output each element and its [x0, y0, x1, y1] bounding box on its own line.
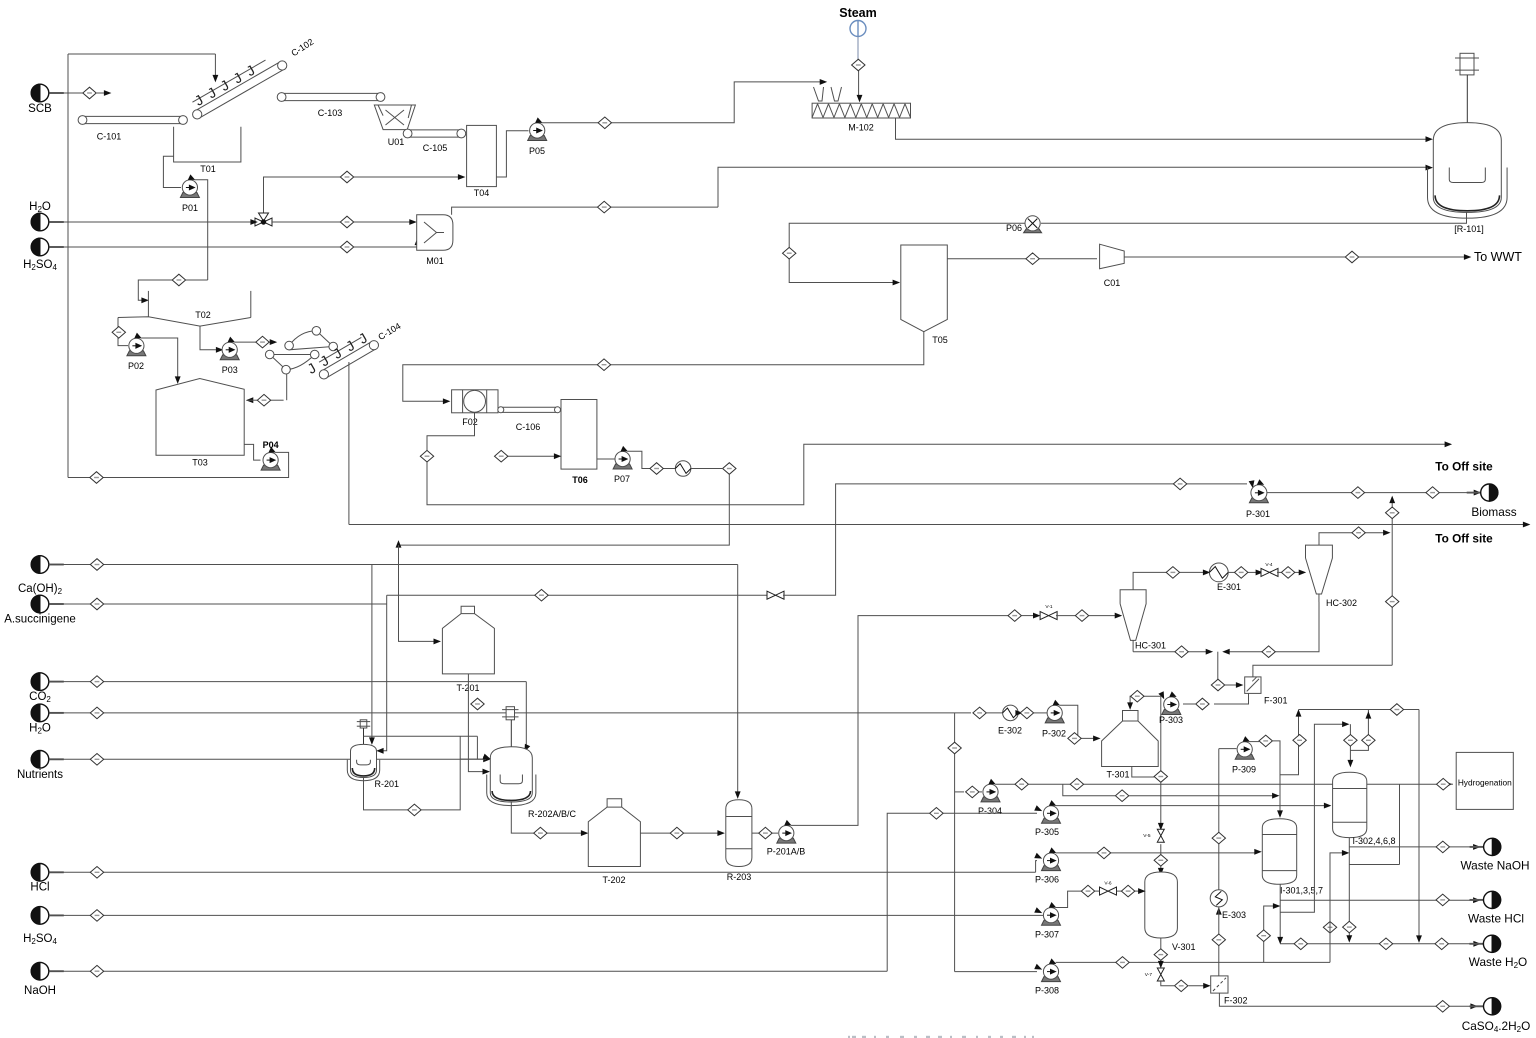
wire H2O to E-302	[986, 712, 1002, 714]
stream diamond on HC-302 bottoms	[1262, 646, 1275, 658]
svg-text:C-103: C-103	[318, 108, 343, 118]
stream diamond on HCl line	[90, 867, 103, 879]
stream diamond on R-202 outlet	[534, 827, 547, 839]
svg-text:P02: P02	[128, 361, 144, 371]
wire waste NaOH line	[1349, 845, 1479, 849]
stream diamond on waste H2O 3	[1435, 938, 1448, 950]
wire R-201 bracket down	[476, 736, 478, 759]
svg-text:Waste HCl: Waste HCl	[1468, 912, 1524, 926]
stream diamond on T-301 feed	[1068, 733, 1081, 745]
stream diamond on top header	[1390, 704, 1403, 716]
wire T-301 riser	[1160, 696, 1162, 782]
output Waste NaOH	[1460, 838, 1529, 872]
wire to valve V-1	[1022, 613, 1040, 617]
conveyor C-101	[78, 116, 187, 142]
wire P03 discharge	[234, 340, 275, 344]
tank T03	[156, 379, 244, 468]
wire C-104 line to off site	[349, 522, 1529, 526]
stream diamond on Nutrients line	[90, 754, 103, 766]
pump P-301	[1246, 480, 1270, 519]
stream diamond on T-301 recycle	[1131, 690, 1144, 702]
motor on R-101	[1455, 53, 1479, 75]
pump P-303	[1159, 692, 1183, 725]
wire V-5 to V-301	[1159, 844, 1163, 874]
wire V-7 to F-302	[1161, 981, 1210, 988]
heat exchanger E-303	[1210, 890, 1246, 920]
stream diamond on F-301 feed	[1211, 679, 1224, 691]
stream diamond on waste H2O 2	[1379, 938, 1392, 950]
hydrocyclone HC-301	[1120, 590, 1166, 652]
input NaOH	[24, 962, 64, 997]
wire T05 bottoms to F02	[403, 332, 924, 404]
stream diamond on H2O-M01 line	[340, 216, 353, 228]
svg-text:T04: T04	[474, 188, 490, 198]
svg-text:E-301: E-301	[1217, 582, 1241, 592]
wire T06 feed	[508, 454, 560, 458]
stream diamond above E-303	[1212, 832, 1225, 844]
wire P-309 feed corner	[1219, 748, 1237, 750]
wire to P-304	[979, 791, 982, 793]
stream diamond on P-308 riser	[1323, 922, 1336, 934]
valve on purge line	[767, 591, 784, 599]
wire nutrients junction to R-202	[460, 755, 489, 760]
wire V-5 riser	[1159, 782, 1163, 829]
wire branch from P-308 line up	[1264, 904, 1279, 963]
svg-text:U01: U01	[388, 137, 405, 147]
pump P-309	[1232, 737, 1256, 774]
input A.succinigene	[4, 595, 76, 625]
wire T03 outlet to P04	[244, 444, 260, 460]
input H2SO4 lower	[23, 907, 64, 946]
reactor R-101	[1428, 75, 1508, 234]
svg-text:P-308: P-308	[1035, 986, 1059, 996]
input Nutrients	[17, 751, 64, 782]
svg-text:NaOH: NaOH	[24, 985, 56, 997]
wire NaOH line	[49, 970, 887, 972]
tank T05	[901, 245, 948, 345]
svg-text:T02: T02	[195, 310, 211, 320]
svg-text:P07: P07	[614, 474, 630, 484]
wire P-302 discharge to T-301	[1059, 705, 1099, 740]
label Steam	[839, 6, 877, 20]
wire Ca(OH)2 branch to R-201	[370, 565, 374, 744]
wire P-307 discharge to V-6	[1056, 891, 1081, 907]
svg-text:E-302: E-302	[998, 726, 1022, 736]
stream diamond on P05 line	[598, 117, 611, 129]
wire HC-302 bottoms	[1224, 602, 1319, 654]
stream diamond on I-302 bottoms	[1343, 921, 1356, 933]
stream diamond on V-301 bottoms	[1154, 949, 1167, 961]
stream diamond on P-301 feed	[1173, 478, 1186, 490]
belt conveyor lower	[265, 350, 319, 374]
wire riser to T-301 top	[1128, 692, 1164, 709]
stream diamond on biomass line 1	[1351, 487, 1364, 499]
hydrocyclone HC-302	[1306, 545, 1358, 608]
stream diamond on P02 feed	[112, 327, 125, 339]
wire E-302 to P-302	[1016, 711, 1047, 715]
stream diamond on T04 feed	[340, 171, 353, 183]
stream diamond on T-202 outlet	[670, 827, 683, 839]
stream diamond after E-302	[1020, 707, 1033, 719]
conveyor C-104 inclined	[304, 329, 378, 379]
stream diamond after E-301	[1235, 567, 1248, 579]
wire T-301 bottoms	[1132, 767, 1154, 778]
wire M01 discharge up	[452, 207, 718, 215]
stream diamond on F02 bottoms	[420, 450, 433, 462]
svg-text:P04: P04	[263, 440, 279, 450]
wire R-202 outlet	[511, 802, 587, 835]
input SCB	[28, 84, 64, 115]
wire HCl line	[49, 871, 1036, 873]
stream diamond on P07 line	[650, 463, 663, 475]
svg-text:Waste H2O: Waste H2O	[1469, 955, 1527, 970]
svg-text:V-4: V-4	[1265, 562, 1273, 568]
stream diamond on T05 bottoms	[597, 359, 610, 371]
svg-text:T03: T03	[192, 458, 208, 468]
svg-text:P06: P06	[1006, 223, 1022, 233]
stream diamond on F-302 feed	[1175, 980, 1188, 992]
reactor R-202	[487, 720, 577, 819]
stream diamond on HC-302 overhead	[1352, 527, 1365, 539]
wire A.succinigene line	[49, 603, 387, 605]
output Waste HCl	[1468, 891, 1524, 925]
wire hydrogenation branch	[1349, 784, 1399, 864]
wire valve riser to T04 line	[264, 175, 465, 196]
spout on M-102 inlet 1	[814, 87, 824, 101]
wire Ca(OH)2 line	[49, 564, 738, 566]
wire A.succ down to R-201	[378, 604, 387, 753]
wire to P-303	[1183, 703, 1196, 705]
stream diamond on R-201 outlet	[408, 804, 421, 816]
pump P05	[528, 118, 547, 156]
wire C-104 discharge down	[348, 362, 350, 525]
stream diamond on CO2 line	[90, 676, 103, 688]
wire F-302 bottoms	[1219, 993, 1476, 1008]
wire F-301 top outlet	[1253, 665, 1392, 677]
svg-text:P-303: P-303	[1159, 715, 1183, 725]
wire R-203 outlet to pump	[752, 832, 778, 834]
wire P02 discharge to T03	[141, 338, 180, 383]
stream diamond on P-305 feed	[930, 808, 943, 820]
wire HC-301 overhead	[1133, 570, 1209, 590]
reactor R-201	[347, 728, 399, 789]
svg-text:T01: T01	[200, 164, 216, 174]
valve three-way on H2O line	[251, 196, 272, 226]
svg-text:Waste NaOH: Waste NaOH	[1460, 859, 1529, 873]
svg-text:HC-302: HC-302	[1326, 598, 1357, 608]
input CO2	[29, 673, 64, 704]
svg-text:F-302: F-302	[1224, 996, 1248, 1006]
wire waste HCl line	[1280, 898, 1479, 902]
wire steam to M-102	[857, 37, 861, 102]
belt conveyor upper	[285, 327, 338, 351]
input H2SO4	[23, 238, 64, 272]
wire HX to diamond	[691, 468, 722, 470]
svg-text:V-5: V-5	[1143, 833, 1151, 839]
wire riser to I-302 feed	[1348, 724, 1352, 766]
stream diamond on steam line	[852, 59, 865, 71]
svg-text:Hydrogenation: Hydrogenation	[1458, 778, 1512, 788]
label To WWT	[1474, 250, 1522, 264]
wire C01 to WWT	[1124, 255, 1470, 259]
heat exchanger E-302	[998, 705, 1022, 735]
stream diamond on waste H2O 1	[1294, 938, 1307, 950]
stream diamond after HX	[723, 463, 736, 475]
svg-text:V-7: V-7	[1145, 972, 1153, 978]
stream diamond on A.succinigene line	[90, 598, 103, 610]
wire header down to waste	[1417, 710, 1421, 942]
wire H2O line	[49, 221, 255, 223]
wire P-309 line to I-301	[1272, 741, 1282, 817]
stream diamond on riser upper	[1386, 507, 1399, 519]
crusher U01	[374, 105, 415, 147]
wire valve to HC-302	[1277, 570, 1305, 574]
stream diamond on riser	[1386, 596, 1399, 608]
pump P-307	[1035, 903, 1061, 940]
wire H2SO4 line to M01	[49, 239, 420, 247]
conveyor C-103	[277, 93, 385, 118]
label To Off site upper	[1435, 460, 1493, 474]
pump P02	[127, 334, 146, 371]
svg-text:T-202: T-202	[602, 875, 625, 885]
stream diamond on HC-301 overhead	[1166, 567, 1179, 579]
stream diamond on P01 line	[172, 274, 185, 286]
column I-301	[1262, 819, 1323, 896]
stream diamond on upper jog	[1362, 735, 1375, 747]
wire M01 line to R-101	[718, 165, 1432, 207]
svg-text:F02: F02	[462, 417, 478, 427]
wire branch to P-308	[955, 965, 1041, 972]
stream diamond on waste HCl	[1436, 894, 1449, 906]
wire V-301 bottoms	[1159, 938, 1163, 967]
wire P-306 discharge to I-301	[1056, 850, 1261, 854]
wire Ca(OH)2 to R-203 top	[736, 565, 740, 798]
stream diamond on F-301 bottoms	[1196, 698, 1209, 710]
wire junction down to F-301	[1218, 652, 1242, 688]
wire branch to P-304	[955, 791, 964, 793]
wire biomass line	[1267, 490, 1480, 494]
stream diamond on P-304 line 1	[1015, 778, 1028, 790]
stream diamond on biomass line 2	[1426, 487, 1439, 499]
wire T01 outlet to P01	[163, 156, 181, 187]
stream diamond on hydrogenation feed	[1437, 778, 1450, 790]
wire valve to M01	[272, 220, 415, 224]
svg-text:C-106: C-106	[516, 422, 541, 432]
input H2O	[29, 201, 64, 231]
wire P-309 branch zigzag	[1280, 711, 1301, 775]
stream diamond on branch	[1257, 930, 1270, 942]
mixer M01	[417, 215, 453, 266]
output Biomass	[1467, 484, 1517, 519]
wire P05 discharge to M-102	[542, 80, 826, 123]
wire HCl jog to P-306	[1035, 854, 1041, 873]
svg-text:V-6: V-6	[1104, 881, 1112, 887]
stream diamond on P06 line	[783, 247, 796, 259]
svg-text:P-302: P-302	[1042, 729, 1066, 739]
svg-text:To WWT: To WWT	[1474, 250, 1522, 264]
stream diamond on zigzag	[1293, 735, 1306, 747]
tank T02 trough	[118, 291, 251, 326]
tank T01 open top	[174, 127, 241, 174]
wire E-301 to valve	[1228, 570, 1262, 574]
wire H2O process line	[49, 712, 971, 714]
wire recycle top horizontal	[68, 53, 215, 55]
wire SCB diamond arrow	[96, 91, 110, 95]
wire top header	[1299, 709, 1420, 711]
stream diamond on M01 line	[598, 201, 611, 213]
svg-text:SCB: SCB	[28, 103, 52, 115]
wire P-304 line to hydrogenation	[1028, 782, 1453, 786]
svg-text:HCl: HCl	[30, 882, 49, 894]
wire P-305 discharge to I-302	[1056, 803, 1330, 807]
wire T-202 to R-203	[640, 831, 723, 835]
wire V-6 to V-301	[1095, 889, 1145, 893]
motor on R-201	[357, 720, 370, 728]
stream diamond on H2O process line	[90, 707, 103, 719]
svg-text:M01: M01	[426, 256, 444, 266]
valve V-6	[1100, 881, 1117, 896]
input H2O lower	[29, 704, 64, 735]
pump P-305	[1035, 801, 1061, 837]
wire CO2 line	[49, 681, 527, 683]
column R-203	[726, 800, 752, 882]
compressor C01	[1100, 244, 1125, 288]
svg-text:To Off site: To Off site	[1435, 460, 1493, 474]
stream diamond on CaSO4 line	[1436, 1001, 1449, 1013]
wire P-309 discharge	[1249, 741, 1259, 743]
stream diamond on recycle to I-301	[1115, 790, 1128, 802]
wire CO2 down to R-202	[525, 682, 529, 751]
output Waste H2O	[1469, 935, 1527, 970]
stream diamond on P-304 feed	[966, 786, 979, 798]
svg-text:P-305: P-305	[1035, 827, 1059, 837]
wire P04 discharge recycle	[68, 452, 289, 477]
stream diamond before HC-301	[1075, 610, 1088, 622]
stream diamond on T-301 riser	[1154, 771, 1167, 783]
stream diamond on P03 line	[256, 336, 269, 348]
box Hydrogenation	[1456, 752, 1513, 809]
stream diamond near T-201 outlet	[471, 698, 484, 710]
wire recycle left border vertical	[67, 54, 69, 478]
wire F-301 bottoms	[1214, 693, 1249, 704]
pump P07	[613, 447, 632, 484]
stream diamond on Ca(OH)2 line	[90, 559, 103, 571]
steam source circle	[850, 21, 866, 37]
stream diamond on SCB line	[83, 87, 96, 99]
svg-text:I-301,3,5,7: I-301,3,5,7	[1280, 886, 1323, 896]
wire P-308 discharge	[1056, 961, 1330, 963]
filter F02	[452, 390, 498, 427]
stream diamond on H2SO4 line	[340, 241, 353, 253]
wire HC-302 overhead	[1319, 531, 1389, 546]
svg-text:R-201: R-201	[375, 779, 400, 789]
pump P04	[261, 440, 280, 470]
wire Nutrients line	[49, 757, 490, 761]
stream diamond on WWT line	[1345, 251, 1358, 263]
stream diamond on P-309 line	[1259, 735, 1272, 747]
svg-text:V-1: V-1	[1045, 604, 1053, 610]
input HCl	[30, 864, 63, 894]
svg-text:F-301: F-301	[1264, 696, 1288, 706]
wire drop to C-102	[213, 54, 217, 81]
wire P01 discharge	[195, 180, 208, 280]
stream diamond on HC-301 bottoms	[1175, 646, 1188, 658]
conveyor C-106	[498, 407, 561, 432]
wire into T03 right	[247, 398, 283, 402]
valve V-1	[1040, 604, 1057, 620]
pump P03	[220, 338, 239, 375]
conveyor C-102 inclined	[192, 60, 287, 119]
wire lower conveyor to T03 diamond	[286, 374, 288, 400]
wire M-102 to R-101	[896, 118, 1432, 141]
tank T04	[467, 125, 497, 198]
wire I-302 bottoms	[1347, 838, 1351, 942]
svg-text:[R-101]: [R-101]	[1454, 224, 1484, 234]
wire T04 outlet to P05	[496, 131, 528, 177]
svg-text:Biomass: Biomass	[1471, 505, 1516, 519]
svg-text:HC-301: HC-301	[1135, 641, 1166, 651]
wire SCB to diamond	[49, 92, 83, 94]
svg-text:I-302,4,6,8: I-302,4,6,8	[1353, 836, 1396, 846]
pump P-306	[1035, 848, 1061, 884]
output CaSO4	[1462, 998, 1531, 1034]
wire I-301 recycle riser	[1280, 722, 1348, 912]
wire E-303 vertical upper	[1217, 749, 1221, 915]
svg-text:Ca(OH)2: Ca(OH)2	[18, 583, 63, 596]
svg-text:M-102: M-102	[848, 123, 874, 133]
svg-text:V-301: V-301	[1172, 942, 1196, 952]
svg-text:R-202A/B/C: R-202A/B/C	[528, 809, 577, 819]
wire purge to riser	[783, 481, 1254, 595]
pump P01	[180, 175, 199, 213]
column I-302	[1333, 772, 1396, 846]
wire to T-201	[396, 474, 729, 643]
wire upper jog	[1350, 710, 1370, 750]
wire T06 outlet to P07	[597, 458, 615, 460]
wire R-201 vent	[364, 735, 478, 737]
svg-text:P-304: P-304	[978, 806, 1002, 816]
wire T02 bottom outlet to P03	[200, 326, 222, 352]
svg-text:H2SO4: H2SO4	[23, 259, 57, 272]
pump P-302	[1042, 701, 1066, 739]
svg-text:T-301: T-301	[1106, 770, 1129, 780]
heat exchanger on P07 line	[675, 461, 691, 477]
heat exchanger E-301	[1209, 563, 1241, 592]
valve V-4	[1261, 562, 1278, 576]
stream diamond on NaOH line	[90, 965, 103, 977]
stream diamond on H2SO4 line	[90, 910, 103, 922]
tank T-202	[588, 799, 640, 885]
wire R-101 bottoms	[1041, 212, 1467, 223]
wire H2SO4 line to P-307	[49, 914, 1043, 916]
wire I-301 bottoms	[1278, 884, 1282, 943]
svg-text:P-306: P-306	[1035, 875, 1059, 885]
svg-text:A.succinigene: A.succinigene	[4, 614, 76, 626]
pump P-201A/B	[767, 821, 806, 857]
svg-text:Nutrients: Nutrients	[17, 769, 63, 781]
label To Off site lower	[1435, 532, 1493, 546]
wire R-201 outlet loop	[364, 736, 461, 810]
wire P-308 riser	[1330, 851, 1348, 963]
cropped caption at bottom edge	[848, 1036, 1034, 1038]
pump P-308	[1035, 959, 1061, 995]
motor on R-202	[502, 707, 518, 720]
conveyor C-105	[403, 129, 465, 153]
svg-text:R-203: R-203	[727, 872, 752, 882]
wire riser to biomass junction	[1390, 497, 1394, 665]
stream diamond after V-6	[1121, 885, 1134, 897]
svg-text:C-105: C-105	[423, 143, 448, 153]
